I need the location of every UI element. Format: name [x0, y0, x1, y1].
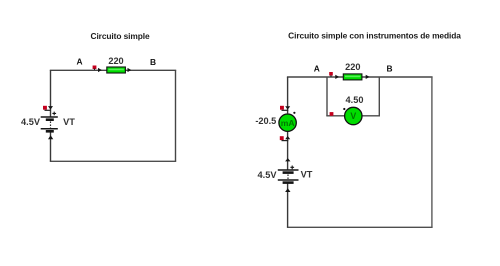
- wire right (right circuit): [431, 77, 433, 227]
- wire voltmeter branch left vertical: [326, 77, 328, 116]
- current arrow below battery VT: [48, 135, 53, 139]
- current arrow above battery VT: [48, 106, 53, 110]
- resistor R2 220 ohm: [343, 74, 362, 80]
- probe square at ammeter top: [280, 106, 288, 111]
- wire left lower (battery to bottom): [287, 183, 289, 227]
- current arrow right of resistor R1: [128, 68, 132, 72]
- svg-text:B: B: [150, 57, 156, 67]
- wire right (left circuit): [175, 70, 177, 161]
- current arrow left of resistor R1: [98, 68, 102, 72]
- ammeter M1: [279, 112, 296, 132]
- wire bottom (right circuit): [287, 226, 433, 228]
- current arrow above ammeter: [285, 106, 290, 109]
- wire top (right circuit): [287, 76, 433, 78]
- current arrow below ammeter: [285, 136, 290, 139]
- current arrow left of resistor R2: [335, 75, 339, 79]
- svg-text:220: 220: [345, 62, 360, 72]
- battery VT (left circuit): [41, 112, 58, 132]
- svg-text:-20.5: -20.5: [255, 116, 276, 126]
- wire voltmeter branch right vertical: [378, 77, 380, 116]
- svg-text:Circuito simple con instrument: Circuito simple con instrumentos de medi…: [288, 31, 461, 41]
- wire left mid (ammeter to battery): [287, 131, 289, 170]
- resistor R1 220 ohm: [107, 67, 126, 73]
- svg-text:VT: VT: [301, 170, 313, 180]
- svg-text:A: A: [314, 63, 320, 73]
- probe square at ammeter bottom: [280, 136, 289, 140]
- svg-text:B: B: [386, 63, 392, 73]
- probe square at battery VT top: [43, 106, 51, 111]
- current arrow right of resistor R2: [366, 75, 370, 79]
- svg-text:mA: mA: [281, 118, 295, 128]
- svg-text:Circuito simple: Circuito simple: [91, 31, 150, 41]
- svg-text:A: A: [76, 57, 82, 67]
- current arrow below battery VT (right): [285, 188, 290, 192]
- svg-text:4.5V: 4.5V: [21, 117, 41, 127]
- svg-text:4.50: 4.50: [346, 95, 364, 105]
- wire left upper (right circuit, into ammeter): [287, 77, 289, 113]
- current arrow above battery VT (right): [285, 158, 290, 161]
- wire bottom (left circuit): [50, 160, 176, 162]
- svg-text:VT: VT: [63, 117, 75, 127]
- voltmeter M2: [343, 107, 362, 124]
- wire voltmeter branch right horizontal: [361, 115, 380, 117]
- svg-text:V: V: [350, 111, 356, 121]
- probe square at resistor R2 left: [329, 72, 333, 77]
- wire left upper (left circuit): [50, 70, 52, 117]
- wire top (left circuit): [50, 69, 176, 71]
- probe square at voltmeter left: [330, 112, 334, 116]
- svg-text:4.5V: 4.5V: [258, 170, 278, 180]
- battery VT (right circuit): [278, 166, 299, 183]
- wire voltmeter branch left horizontal: [326, 115, 345, 117]
- svg-text:220: 220: [108, 56, 123, 66]
- probe square at resistor R1 left: [93, 66, 97, 71]
- wire left lower (left circuit): [50, 131, 52, 161]
